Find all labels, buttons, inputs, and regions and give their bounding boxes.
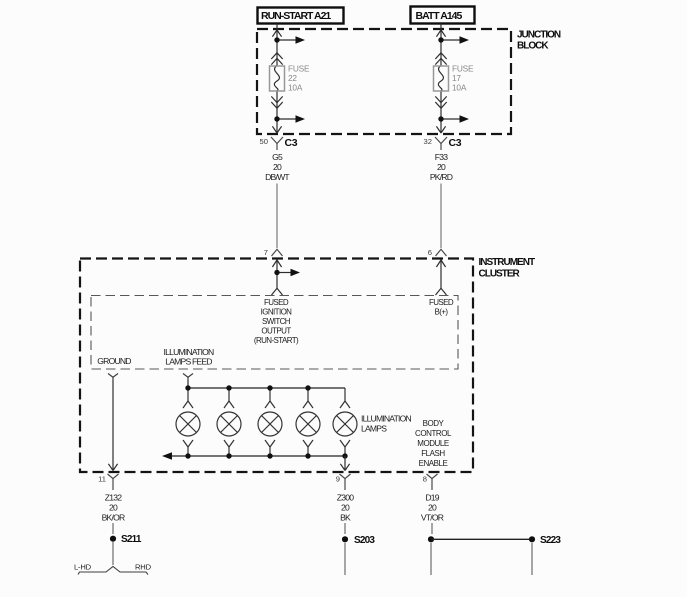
svg-text:MODULE: MODULE <box>417 439 449 448</box>
svg-text:G5: G5 <box>272 152 283 162</box>
svg-text:LAMPS: LAMPS <box>361 423 387 433</box>
svg-text:7: 7 <box>264 248 268 257</box>
svg-text:ILLUMINATION: ILLUMINATION <box>361 413 412 423</box>
svg-text:FUSE: FUSE <box>452 64 474 74</box>
svg-text:50: 50 <box>260 137 268 146</box>
svg-text:CLUSTER: CLUSTER <box>479 269 521 280</box>
svg-text:INSTRUMENT: INSTRUMENT <box>479 257 535 268</box>
svg-text:D19: D19 <box>425 493 439 503</box>
svg-text:LAMPS FEED: LAMPS FEED <box>165 356 212 366</box>
svg-text:PK/RD: PK/RD <box>430 172 453 182</box>
svg-text:S223: S223 <box>540 535 561 546</box>
svg-text:20: 20 <box>428 502 437 512</box>
svg-text:S211: S211 <box>121 534 142 545</box>
svg-text:DB/WT: DB/WT <box>265 172 290 182</box>
svg-text:Z300: Z300 <box>337 493 354 503</box>
svg-text:ILLUMINATION: ILLUMINATION <box>164 347 215 357</box>
svg-text:9: 9 <box>336 475 340 484</box>
svg-text:BATT A145: BATT A145 <box>416 10 463 22</box>
svg-text:FLASH: FLASH <box>421 449 445 458</box>
svg-text:SWITCH: SWITCH <box>262 317 291 326</box>
svg-text:BLOCK: BLOCK <box>517 41 549 52</box>
svg-text:20: 20 <box>109 502 118 512</box>
svg-text:OUTPUT: OUTPUT <box>261 327 291 336</box>
svg-text:GROUND: GROUND <box>97 356 131 366</box>
svg-text:FUSE: FUSE <box>288 64 310 74</box>
svg-text:ENABLE: ENABLE <box>419 459 448 468</box>
svg-text:VT/OR: VT/OR <box>421 512 444 522</box>
svg-text:11: 11 <box>98 475 106 484</box>
svg-text:C3: C3 <box>449 137 462 149</box>
svg-text:L-HD: L-HD <box>74 563 92 572</box>
svg-text:B(+): B(+) <box>435 307 449 316</box>
svg-text:IGNITION: IGNITION <box>261 307 293 316</box>
svg-text:20: 20 <box>341 502 350 512</box>
svg-text:BODY: BODY <box>423 419 445 428</box>
svg-text:20: 20 <box>273 162 282 172</box>
svg-text:FUSED: FUSED <box>429 298 454 307</box>
svg-text:C3: C3 <box>285 137 298 149</box>
svg-text:RHD: RHD <box>135 563 152 572</box>
svg-text:BK: BK <box>340 512 351 522</box>
svg-text:32: 32 <box>424 137 432 146</box>
svg-text:CONTROL: CONTROL <box>415 429 452 438</box>
svg-text:JUNCTION: JUNCTION <box>517 30 561 41</box>
svg-text:8: 8 <box>423 475 427 484</box>
svg-text:10A: 10A <box>452 82 467 92</box>
svg-text:20: 20 <box>437 162 446 172</box>
svg-text:10A: 10A <box>288 82 303 92</box>
svg-text:BK/OR: BK/OR <box>102 512 125 522</box>
svg-text:(RUN-START): (RUN-START) <box>254 336 299 345</box>
svg-text:6: 6 <box>428 248 432 257</box>
svg-text:Z132: Z132 <box>105 493 122 503</box>
svg-text:RUN-START A21: RUN-START A21 <box>261 10 331 22</box>
svg-text:FUSED: FUSED <box>264 298 289 307</box>
svg-text:F33: F33 <box>435 152 448 162</box>
svg-text:S203: S203 <box>354 535 375 546</box>
